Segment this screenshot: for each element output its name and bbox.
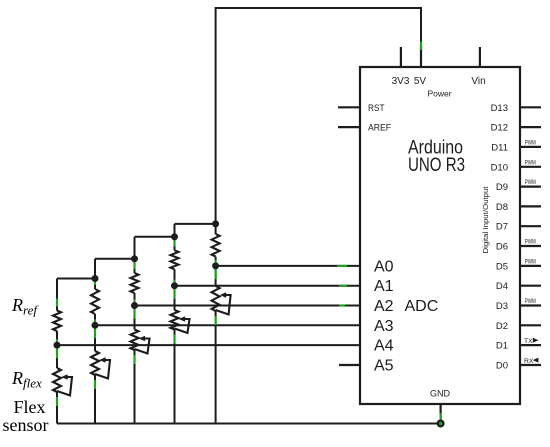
IC Arduino UNO R3 [360,67,520,404]
node supply junction 1 [92,275,99,282]
svg-text:D4: D4 [496,281,508,292]
svg-text:A3: A3 [374,318,394,335]
resistor R_flex chain 5 green leg top [215,269,217,279]
resistor R_flex chain 4 [171,310,179,330]
svg-text:D12: D12 [491,123,508,134]
resistor R_flex chain 5 bend arrow [216,292,231,314]
wire chain 4 junction to R_flex [174,286,176,310]
resistor R_flex chain 2 green leg top [94,328,96,338]
resistor R_flex chain 5 green leg bottom [215,316,217,325]
resistor R_flex chain 3 [131,330,139,351]
label Flex sensor [3,397,49,435]
wire chain 4 R_ref to junction [174,269,176,285]
resistor R_ref chain 2 green leg bottom [94,319,96,323]
wire to pin A4 [57,344,360,346]
resistor R_ref chain 2 green leg top [94,277,96,285]
resistor R_flex chain 3 bend arrow [135,336,150,354]
wire GND bus [57,423,441,425]
svg-text:RX: RX [524,358,534,365]
wire chain 3 junction to R_flex [134,306,136,330]
pin GND [430,389,451,424]
svg-text:Flex: Flex [14,397,46,417]
wire chain 5 junction to R_flex [215,266,217,286]
pin D12 [491,123,541,134]
svg-text:AREF: AREF [368,123,391,134]
pin D7 [496,222,541,233]
resistor R_flex chain 1 green leg bottom [56,397,58,406]
resistor R_flex chain 4 bend arrow [175,316,190,333]
wire chain 3 vertical top [134,237,136,273]
pin D9 [496,179,541,193]
resistor R_ref chain 3 [131,273,139,293]
pin A1 green leg [339,285,347,287]
pin A5 stub [339,364,360,366]
pin Vin [471,47,485,87]
pin 3V3 [392,47,410,87]
resistor R_ref chain 3 green leg bottom [133,300,135,304]
svg-text:PWM: PWM [525,258,536,265]
resistor R_ref chain 4 [171,250,179,269]
wire chain 1 bottom [56,392,58,424]
wire supply staircase [135,236,175,238]
pin GND green leg [440,413,442,422]
resistor R_flex chain 3 green leg bottom [133,355,135,364]
pin RST [338,103,385,114]
resistor R_ref chain 1 green leg bottom [56,339,58,343]
wire to pin A1 [175,285,361,287]
node divider junction chain 5 [212,262,219,269]
wire chain 1 vertical top [56,279,58,311]
resistor R_flex chain 2 [91,351,99,375]
svg-text:PWM: PWM [525,139,536,146]
svg-text:D5: D5 [496,261,508,272]
resistor R_ref chain 1 [53,311,61,332]
node supply junction 4 [212,220,219,227]
resistor R_flex chain 3 green leg top [133,309,135,319]
wire chain 4 vertical top [174,224,176,250]
svg-text:PWM: PWM [525,239,536,246]
svg-text:D0: D0 [496,361,508,372]
wire chain 1 R_ref to junction [56,331,58,345]
svg-text:Power: Power [427,89,451,99]
svg-text:D13: D13 [491,103,508,114]
pin 5V [414,47,427,87]
pin D6 [496,239,541,253]
svg-text:D7: D7 [496,222,508,233]
wire chain 5 bottom [215,311,217,424]
wire chain 5 vertical top [215,224,217,234]
pin 5V green leg [420,42,422,51]
pin A0 green leg [337,265,347,267]
svg-text:sensor: sensor [3,415,49,435]
resistor R_ref chain 4 green leg top [173,238,175,246]
svg-text:A2: A2 [374,298,394,315]
svg-text:D8: D8 [496,202,508,213]
wire to pin A0 [216,265,360,267]
resistor R_ref chain 5 [212,234,220,257]
svg-text:D9: D9 [496,182,508,193]
resistor R_flex chain 2 green leg bottom [94,380,96,389]
svg-text:Digital Input/Output: Digital Input/Output [481,186,490,254]
svg-text:PWM: PWM [525,298,536,305]
svg-text:A1: A1 [374,278,394,295]
svg-text:5V: 5V [414,76,427,87]
node divider junction chain 3 [131,302,138,309]
pin D1 [496,338,541,352]
wire to pin A3 [95,324,360,326]
pin A2 green leg [339,304,345,306]
resistor R_ref chain 5 green leg bottom [215,260,217,264]
wire chain 1 junction to R_flex [56,345,58,368]
svg-text:3V3: 3V3 [392,76,410,87]
pin D13 [491,103,541,114]
resistor R_flex chain 2 bend arrow [95,357,110,378]
resistor R_flex chain 1 [53,368,61,392]
wire to pin A2 [135,305,361,307]
resistor R_ref chain 2 [91,289,99,314]
wire chain 2 junction to R_flex [94,325,96,351]
pin D0 [496,358,541,372]
svg-text:D10: D10 [491,162,508,173]
wire chain 4 bottom [174,330,176,424]
resistor R_ref chain 4 green leg bottom [173,280,175,284]
svg-text:TX: TX [524,338,533,345]
wire supply staircase [175,223,216,225]
resistor R_flex chain 5 [212,286,220,311]
wire supply staircase [57,278,95,280]
svg-text:PWM: PWM [525,159,536,166]
node supply junction 2 [131,255,138,262]
wire 5V supply from chain top to 5V pin [216,8,421,224]
svg-text:D6: D6 [496,242,508,253]
wire chain 2 R_ref to junction [94,314,96,325]
resistor R_ref chain 1 green leg top [56,299,58,307]
wire chain 2 vertical top [94,259,96,289]
pin D10 [491,159,541,173]
node supply junction 3 [171,233,178,240]
resistor R_ref chain 3 green leg top [133,261,135,269]
pin D11 [491,139,541,153]
pin D8 [496,202,541,213]
resistor R_flex chain 4 green leg top [173,289,175,299]
svg-text:PWM: PWM [525,179,536,186]
svg-text:GND: GND [430,389,451,399]
resistor R_flex chain 1 bend arrow [57,374,72,395]
node GND junction [437,420,445,428]
pin D4 [496,281,541,292]
svg-text:A4: A4 [374,338,394,355]
wire chain 2 bottom [94,375,96,424]
resistor R_flex chain 1 green leg top [56,348,58,358]
svg-text:D1: D1 [496,341,508,352]
wire chain 3 bottom [134,350,136,424]
wire chain 3 R_ref to junction [134,293,136,306]
resistor R_flex chain 4 green leg bottom [173,335,175,344]
svg-text:D3: D3 [496,301,508,312]
svg-text:UNO R3: UNO R3 [408,155,465,176]
pin D5 [496,258,541,272]
pin D3 [496,298,541,312]
pin D2 [496,321,541,332]
node divider junction chain 2 [92,322,99,329]
wire supply staircase [95,258,135,260]
svg-text:A0: A0 [374,258,394,275]
svg-text:D11: D11 [491,142,508,153]
svg-text:D2: D2 [496,321,508,332]
svg-text:A5: A5 [374,358,394,375]
svg-text:ADC: ADC [405,298,439,315]
svg-text:RST: RST [368,103,385,114]
pin AREF [338,123,391,134]
wire chain 5 R_ref to junction [215,257,217,266]
svg-text:Vin: Vin [471,76,485,87]
node divider junction chain 1 [54,342,61,349]
node divider junction chain 4 [171,282,178,289]
